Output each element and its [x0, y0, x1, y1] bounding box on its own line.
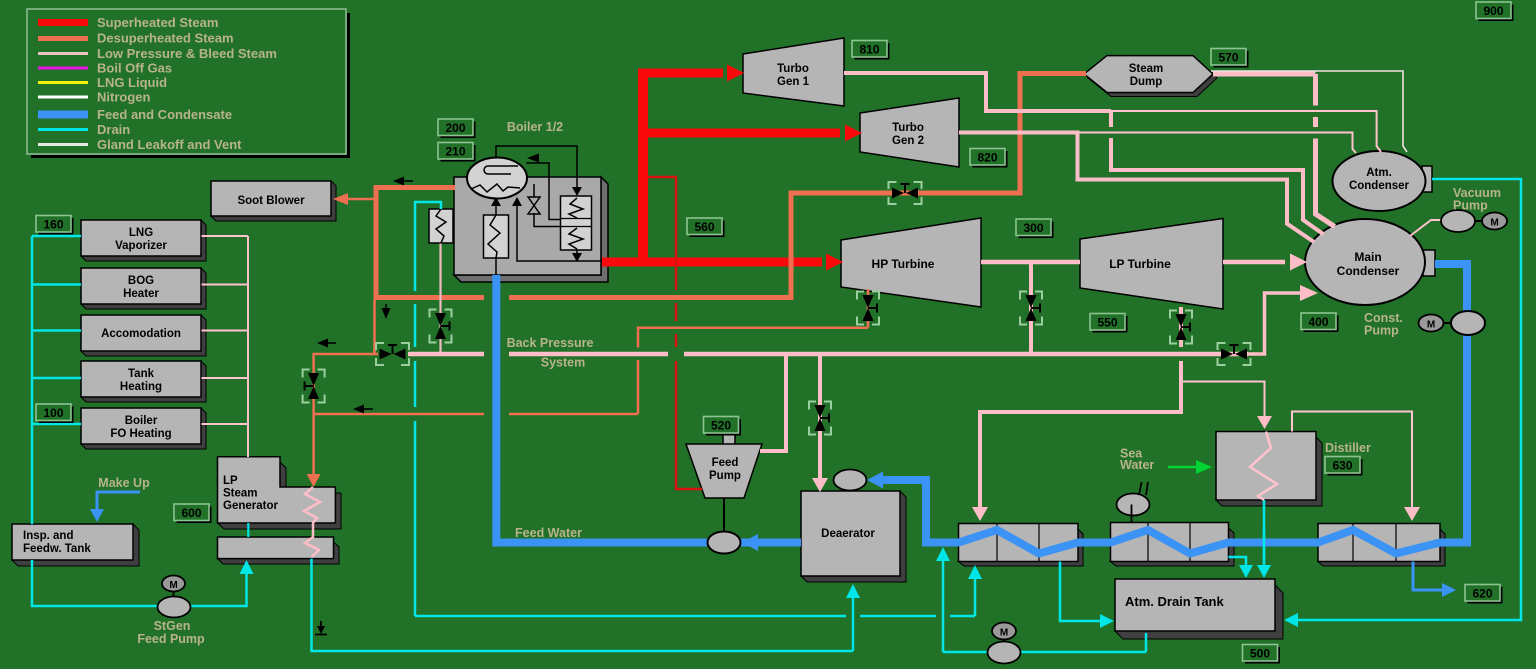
arrow cyan into drain tank right — [1284, 613, 1298, 627]
svg-text:Superheated Steam: Superheated Steam — [97, 15, 218, 30]
wire: cyan boiler drain long line — [415, 202, 975, 616]
LNG vaporizer box — [81, 220, 206, 261]
legend swatch low pressure bleed steam — [38, 52, 88, 55]
wire: cyan drain pump circuit — [943, 560, 1146, 652]
svg-text:Water: Water — [1120, 458, 1154, 472]
arrow cyan up into LPSG bar — [240, 560, 254, 574]
wire: gland leakoff steam dump to atm condenser — [1211, 71, 1407, 152]
valve on back pressure line at 1234 — [1218, 343, 1251, 365]
valve Vb vertical at 313 — [303, 370, 325, 403]
text sea water — [1120, 447, 1154, 473]
distiller — [1216, 432, 1322, 507]
svg-text:M: M — [169, 580, 177, 591]
text stgen feed pump — [137, 619, 205, 646]
const pump motor M — [1419, 315, 1452, 332]
valve on desuperheated line at 905 — [889, 182, 922, 204]
LP steam generator lower bar — [218, 537, 340, 564]
wire: pink crossover branch down — [1029, 262, 1033, 354]
wire: salmon to LP steam generator — [314, 353, 378, 478]
wire: pink turbo gen 2 exhaust — [959, 133, 1314, 243]
wire: pink branch to deaerator — [818, 354, 822, 482]
atm drain tank — [1115, 579, 1283, 639]
svg-text:Soot Blower: Soot Blower — [237, 195, 305, 207]
wire: pink thin bleed to distiller — [1183, 382, 1265, 419]
svg-text:Back Pressure: Back Pressure — [507, 336, 594, 350]
valve Vc vertical at 440 economizer drain — [430, 310, 452, 343]
arrow pink into main condenser lower — [1300, 285, 1318, 301]
svg-text:520: 520 — [711, 419, 731, 433]
black arrow left above corner 313 — [317, 339, 336, 348]
arrow pink into main condenser — [1290, 254, 1307, 271]
arrow blue make up into tank — [90, 509, 104, 522]
boiler internal valve — [528, 197, 540, 214]
wire: pink service boxes return header — [202, 236, 249, 457]
svg-text:Drain: Drain — [97, 122, 130, 137]
legend swatch gland leakoff — [38, 143, 88, 146]
turbo gen 1 — [743, 38, 844, 106]
boiler right heat exchanger — [561, 196, 592, 250]
node 500 — [1243, 645, 1281, 664]
arrow salmon into soot blower — [333, 193, 348, 205]
node 900 — [1476, 2, 1514, 21]
node 600 — [174, 504, 212, 523]
svg-text:560: 560 — [694, 220, 714, 234]
wire: cyan LPSG to bar connector — [247, 523, 249, 537]
svg-text:Steam: Steam — [223, 488, 258, 500]
node 810 — [852, 41, 890, 60]
legend swatch superheated steam — [38, 19, 88, 26]
valve vertical deaerator branch at 820 — [809, 402, 831, 435]
legend swatch nitrogen — [38, 96, 88, 99]
svg-text:Insp. and: Insp. and — [23, 530, 73, 542]
svg-text:820: 820 — [977, 151, 997, 165]
node 560 — [687, 218, 725, 237]
text feed water — [515, 526, 582, 540]
LP steam generator coil — [304, 487, 320, 557]
svg-text:210: 210 — [445, 145, 465, 159]
svg-text:Gland Leakoff and Vent: Gland Leakoff and Vent — [97, 137, 242, 152]
node 570 — [1211, 49, 1249, 68]
fw heater A — [959, 524, 1084, 567]
svg-text:Feedw. Tank: Feedw. Tank — [23, 543, 91, 555]
accomodation box — [81, 315, 206, 356]
soot blower box — [211, 181, 336, 221]
text vacuum pump — [1453, 186, 1501, 213]
arrow cyan up from drain pump — [936, 547, 950, 561]
wire: pink LP exhaust to main condenser — [1223, 260, 1285, 265]
svg-text:Low Pressure & Bleed Steam: Low Pressure & Bleed Steam — [97, 46, 277, 61]
svg-text:810: 810 — [859, 43, 879, 57]
insp and feedw tank — [12, 524, 139, 566]
svg-text:System: System — [541, 356, 585, 370]
const pump — [1451, 311, 1485, 335]
node 400 — [1301, 313, 1339, 332]
valve vertical LP bleed at 1181 — [1170, 311, 1192, 344]
legend swatch feed and condensate — [38, 111, 88, 119]
wire: cyan heater A drain to tank — [1060, 562, 1100, 622]
arrow pink into heater A top — [972, 507, 988, 521]
arrow salmon into LP steam generator coil — [307, 474, 321, 487]
boiler FO heating box — [81, 408, 206, 449]
arrow cyan into tank top 1 — [1239, 565, 1253, 578]
svg-text:Pump: Pump — [1453, 199, 1488, 213]
wire: pink LP turbine bleed — [980, 307, 1181, 510]
text boiler 1/2 — [507, 120, 563, 134]
svg-text:Desuperheated Steam: Desuperheated Steam — [97, 31, 234, 46]
vacuum pump — [1441, 210, 1482, 232]
svg-text:600: 600 — [181, 506, 201, 520]
wire: cyan distiller drain — [1263, 500, 1266, 568]
svg-text:100: 100 — [43, 406, 63, 420]
svg-text:570: 570 — [1218, 51, 1238, 65]
svg-text:Feed and Condensate: Feed and Condensate — [97, 107, 232, 122]
svg-text:200: 200 — [445, 121, 465, 135]
svg-text:300: 300 — [1023, 221, 1043, 235]
wire: blue feed water boiler line — [496, 275, 801, 543]
svg-text:Heater: Heater — [123, 288, 159, 300]
valve vertical crossover branch at 1031 — [1020, 292, 1042, 325]
svg-text:HP Turbine: HP Turbine — [872, 257, 935, 271]
svg-text:Deaerator: Deaerator — [821, 528, 875, 540]
node 520 — [704, 417, 742, 436]
svg-text:Feed Pump: Feed Pump — [137, 632, 205, 646]
wire: cyan LPSG drain to deaerator — [312, 559, 854, 651]
legend labels — [97, 15, 277, 152]
svg-text:Pump: Pump — [1364, 324, 1399, 338]
svg-text:400: 400 — [1308, 315, 1328, 329]
arrow pink into heater C top — [1404, 507, 1420, 521]
steam dump hexagon — [1084, 56, 1217, 97]
wire: pink thin branch to atm condenser 2 — [1078, 133, 1357, 154]
legend swatch drain — [38, 128, 88, 131]
svg-text:Boil Off Gas: Boil Off Gas — [97, 61, 172, 76]
svg-text:630: 630 — [1332, 459, 1352, 473]
arrow cyan up into deaerator bottom — [846, 584, 860, 598]
svg-text:Dump: Dump — [1130, 76, 1163, 88]
svg-text:M: M — [1000, 628, 1008, 639]
wire: pink branch to feed pump turbine — [760, 354, 786, 451]
LP steam generator — [218, 457, 342, 529]
svg-text:Generator: Generator — [223, 500, 278, 512]
node 300 — [1016, 219, 1054, 238]
arrow cyan into drain tank left — [1100, 614, 1114, 628]
wire: blue heater C drain to 620 — [1413, 562, 1443, 591]
svg-text:FO Heating: FO Heating — [110, 428, 171, 440]
arrow red into turbo gen 2 — [845, 125, 862, 142]
wire: pink main condenser to vacuum pump — [1410, 220, 1442, 236]
svg-text:Feed: Feed — [712, 457, 739, 469]
arrow cyan into tank top 2 — [1257, 565, 1271, 578]
text const pump — [1364, 311, 1403, 338]
svg-text:Tank: Tank — [128, 368, 155, 380]
atm condenser — [1333, 151, 1433, 211]
arrow pink into deaerator top — [812, 478, 828, 492]
svg-text:Turbo: Turbo — [892, 122, 924, 134]
svg-text:Make Up: Make Up — [98, 476, 150, 490]
node 620 — [1465, 585, 1503, 604]
svg-text:Boiler 1/2: Boiler 1/2 — [507, 120, 563, 134]
wire: cyan atm condenser drain — [1298, 179, 1521, 620]
svg-text:500: 500 — [1250, 647, 1270, 661]
arrow cyan up into heater A bottom — [968, 565, 982, 579]
black arrow left above y414 line — [353, 405, 373, 414]
legend swatch boil off gas — [38, 67, 88, 70]
wire: sea water green arrow — [1168, 466, 1196, 469]
fw heater C — [1318, 524, 1445, 567]
wire: desuperheated drop to back pressure valve — [373, 300, 376, 354]
wire: blue make up line — [97, 492, 140, 511]
svg-text:Gen 1: Gen 1 — [777, 76, 810, 88]
stgen feed pump motor M — [162, 576, 185, 597]
svg-text:Heating: Heating — [120, 381, 162, 393]
svg-text:Atm.: Atm. — [1366, 167, 1392, 179]
svg-text:Pump: Pump — [709, 470, 741, 482]
arrow blue to 620 — [1442, 583, 1456, 597]
node 100 — [36, 404, 74, 423]
valve Va on back pressure line at 392 — [376, 343, 409, 365]
wire: cyan distiller drain over blue — [1263, 530, 1266, 560]
svg-text:Boiler: Boiler — [125, 415, 158, 427]
svg-text:StGen: StGen — [154, 619, 191, 633]
svg-text:620: 620 — [1472, 587, 1492, 601]
svg-text:M: M — [1490, 218, 1498, 229]
boiler superheater box — [484, 215, 509, 258]
black vent symbol below LPSG — [315, 621, 327, 635]
wire: pink steam dump outlet — [1213, 74, 1335, 227]
wire: HP turbine bleed steam — [314, 289, 868, 414]
node 160 — [36, 216, 74, 235]
wire: pink back pressure system main — [408, 352, 1248, 357]
svg-text:LNG Liquid: LNG Liquid — [97, 75, 167, 90]
svg-text:Distiller: Distiller — [1325, 441, 1371, 455]
boiler 1/2 body — [454, 177, 608, 282]
vacuum pump motor M — [1482, 213, 1507, 230]
svg-text:Vaporizer: Vaporizer — [115, 240, 167, 252]
wire: economizer rosy drain line — [439, 244, 441, 355]
svg-text:900: 900 — [1483, 4, 1503, 18]
wire: thin red line to feed pump turbine — [648, 177, 702, 489]
wire: desuperheated branch to soot blower — [347, 198, 376, 201]
arrow red into HP turbine — [826, 254, 843, 271]
node 210 — [438, 143, 476, 162]
svg-text:Accomodation: Accomodation — [101, 328, 181, 340]
boiler steam drum — [467, 158, 527, 199]
svg-text:160: 160 — [43, 218, 63, 232]
wire: superheated steam main boiler to HP turbine — [602, 69, 840, 267]
fw heater B vent — [1117, 482, 1150, 523]
node 200 — [438, 119, 476, 138]
node 820 — [970, 149, 1008, 168]
wire: desuperheated steam main loop — [374, 74, 1087, 301]
legend swatch desuperheated steam — [38, 36, 88, 41]
wire: cyan feedw tank to stgen pump — [32, 560, 247, 606]
node 630 — [1325, 457, 1363, 476]
LP turbine — [1080, 219, 1223, 310]
drain pump motor M — [992, 623, 1016, 642]
tank heating box — [81, 361, 206, 402]
distiller coil — [1250, 432, 1277, 501]
svg-text:Nitrogen: Nitrogen — [97, 90, 151, 105]
valve vertical HP bleed at 868 — [857, 292, 879, 325]
legend swatch lng liquid — [38, 81, 88, 84]
wire: cyan service boxes header — [32, 236, 81, 524]
svg-text:LP Turbine: LP Turbine — [1109, 257, 1171, 271]
wire: pink turbo gen 1 exhaust — [844, 73, 1323, 234]
drain pump — [988, 642, 1021, 664]
arrow blue into feed pump — [742, 534, 758, 551]
svg-text:LP: LP — [223, 475, 238, 487]
svg-text:Condenser: Condenser — [1337, 264, 1400, 278]
turbo gen 2 — [860, 98, 959, 167]
svg-text:LNG: LNG — [129, 227, 153, 239]
arrow red into turbo gen 1 — [727, 65, 744, 82]
svg-text:Gen 2: Gen 2 — [892, 135, 924, 147]
wire: pink distiller vapor to heater C — [1292, 412, 1412, 511]
svg-text:Atm. Drain Tank: Atm. Drain Tank — [1125, 594, 1224, 609]
svg-text:550: 550 — [1097, 316, 1117, 330]
text distiller — [1325, 441, 1371, 455]
stgen feed pump — [158, 597, 191, 618]
deaerator top ellipse — [834, 470, 867, 491]
HP turbine — [841, 218, 981, 307]
svg-text:Feed Water: Feed Water — [515, 526, 582, 540]
arrow blue into deaerator ellipse — [867, 472, 883, 489]
svg-text:Steam: Steam — [1129, 63, 1164, 75]
legend box — [27, 9, 349, 157]
wire: pink back pressure to main condenser — [1248, 293, 1301, 354]
svg-text:Turbo: Turbo — [777, 63, 809, 75]
fw heater B — [1111, 523, 1235, 567]
deaerator — [801, 491, 906, 582]
text back pressure system — [507, 336, 594, 370]
svg-text:Condenser: Condenser — [1349, 180, 1410, 192]
wire: cyan heater B drain to tank — [1229, 557, 1247, 568]
black arrow above desuperheated line at boiler — [393, 177, 413, 186]
boiler internal pipes and arrows — [496, 146, 601, 275]
wire: blue condensate main — [881, 264, 1467, 554]
text make up — [98, 476, 150, 490]
svg-text:BOG: BOG — [128, 275, 154, 287]
feed pump — [686, 435, 762, 534]
boiler economizer box — [429, 209, 453, 243]
BOG heater box — [81, 268, 206, 309]
arrow pink into distiller top — [1257, 416, 1272, 429]
node 550 — [1090, 314, 1128, 333]
black arrow down at salmon branch — [382, 304, 391, 319]
svg-text:M: M — [1427, 320, 1435, 331]
wire: pink thin branch to atm condenser 1 — [1111, 111, 1381, 152]
wire: pink HP to LP crossover — [981, 260, 1080, 265]
svg-text:Main: Main — [1354, 250, 1381, 264]
main condenser — [1305, 219, 1435, 305]
feed pump drive ellipse — [708, 532, 741, 554]
